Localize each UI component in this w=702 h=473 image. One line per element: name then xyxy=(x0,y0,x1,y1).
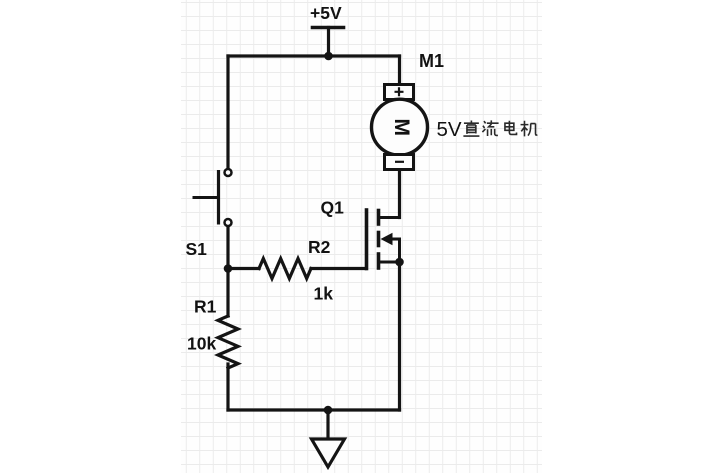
wire: motor top stem xyxy=(398,56,401,85)
M1 motor circle xyxy=(372,99,428,155)
M1 plus terminal box xyxy=(385,85,414,100)
grid paper background xyxy=(181,0,542,473)
S1 actuator bar xyxy=(217,170,220,225)
svg-text:M1: M1 xyxy=(419,51,444,71)
wire: node to R2 left xyxy=(228,267,259,270)
Q1 body lead xyxy=(388,239,400,262)
+5V power rail bar xyxy=(313,26,344,30)
svg-text:R2: R2 xyxy=(308,237,331,257)
M1 plus sign xyxy=(395,87,404,96)
svg-text:Q1: Q1 xyxy=(321,198,345,218)
svg-text:1k: 1k xyxy=(314,284,334,304)
resistor R1 zigzag xyxy=(218,316,238,368)
svg-text:+5V: +5V xyxy=(310,3,342,23)
svg-text:S1: S1 xyxy=(186,239,208,259)
M1 minus terminal box xyxy=(385,155,414,170)
wire: R2 right to gate xyxy=(311,267,365,270)
Q1 drain lead xyxy=(379,216,400,219)
Q1 source lead xyxy=(379,261,400,264)
svg-text:R1: R1 xyxy=(194,297,217,317)
svg-text:10k: 10k xyxy=(187,334,216,354)
svg-text:5V: 5V xyxy=(437,118,462,141)
label 机 (hand-drawn glyph) xyxy=(521,121,538,137)
motor M1 xyxy=(372,85,428,170)
wire: switch bottom to gate-node xyxy=(226,226,229,269)
Q1 channel segment source xyxy=(377,254,381,268)
Q1 body-diode arrow head xyxy=(381,233,393,246)
S1 bottom contact circle xyxy=(225,219,232,226)
S1 top contact circle xyxy=(225,169,232,176)
junction dot at ground node xyxy=(324,406,333,415)
wire: R1 bottom lead xyxy=(226,364,229,410)
S1 plunger xyxy=(193,196,219,199)
Q1 channel segment drain xyxy=(377,211,381,225)
ground symbol xyxy=(312,439,345,467)
wire: top horizontal rail xyxy=(228,54,400,57)
resistor R2 zigzag xyxy=(259,259,311,279)
MOSFET Q1 xyxy=(367,210,400,269)
wire: bottom horizontal rail xyxy=(228,408,400,411)
wire: +5V stem xyxy=(327,28,330,57)
wire: R1 top lead xyxy=(226,269,229,317)
junction dot at gate node xyxy=(224,264,233,273)
label 电 (hand-drawn glyph) xyxy=(505,121,517,135)
Q1 gate bar xyxy=(365,210,369,269)
wire: left vertical to switch xyxy=(226,56,229,169)
junction dot at +5V rail xyxy=(324,52,333,61)
label 直 (hand-drawn glyph) xyxy=(463,121,479,136)
Q1 channel segment body xyxy=(377,233,381,246)
wire: MOSFET source down to bottom rail xyxy=(398,262,401,410)
junction dot at source node xyxy=(395,258,404,267)
label 流 (hand-drawn glyph) xyxy=(482,120,498,136)
switch S1 pushbutton xyxy=(193,169,232,226)
svg-text:M: M xyxy=(390,118,413,136)
M1 minus sign xyxy=(395,161,404,163)
wire: motor bottom to drain xyxy=(398,171,401,218)
wire: ground stub xyxy=(326,410,329,439)
